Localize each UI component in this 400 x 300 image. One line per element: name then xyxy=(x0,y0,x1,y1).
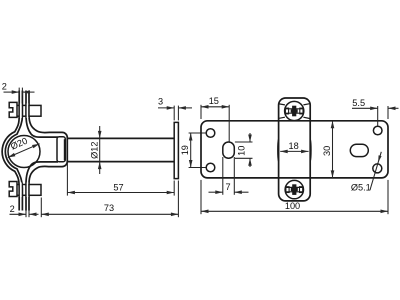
svg-text:5.5: 5.5 xyxy=(352,98,365,108)
hole top-right xyxy=(373,126,382,135)
band tab right edge xyxy=(309,140,312,162)
top strap gap masks xyxy=(20,104,22,119)
dim 2 top strap thickness xyxy=(18,88,20,96)
svg-text:15: 15 xyxy=(209,96,219,106)
clamp housing front view xyxy=(279,98,311,201)
clamp band right piece outer edge with eye loop xyxy=(29,91,67,211)
dim Ø20 clamp bore xyxy=(8,144,40,158)
svg-text:10: 10 xyxy=(236,146,246,156)
clamp band right piece inner edge bottom xyxy=(26,162,58,211)
svg-text:3: 3 xyxy=(158,97,163,107)
band tab left edge xyxy=(277,140,280,162)
dim 15 slot position xyxy=(200,105,202,119)
shaft Ø12 bottom edge xyxy=(67,161,175,163)
hole bottom-left xyxy=(206,163,215,172)
clamp screw top front view xyxy=(285,101,304,120)
dim 30 plate height xyxy=(332,121,334,178)
top nut xyxy=(29,105,41,116)
dim 5.5 hole offset xyxy=(377,106,379,127)
bottom nut xyxy=(29,185,41,196)
dim 2 bottom strap thickness xyxy=(25,211,27,218)
clamp band left piece outer edge xyxy=(2,91,19,211)
clamp band right piece inner edge top xyxy=(26,91,58,138)
label Ø5.1 leader xyxy=(370,152,381,190)
shaft end face in eye xyxy=(63,139,65,160)
svg-text:57: 57 xyxy=(113,183,123,193)
dim 100 plate width xyxy=(200,180,202,214)
dim 18 clamp width xyxy=(280,150,308,152)
screw top yoke edges xyxy=(279,104,285,105)
hole top-left xyxy=(206,129,215,138)
svg-text:2: 2 xyxy=(2,82,7,92)
eye inner opening xyxy=(57,137,65,162)
bottom screw head xyxy=(9,182,17,197)
svg-text:2: 2 xyxy=(10,204,15,214)
hole bottom-right Ø5.1 xyxy=(373,164,382,173)
dim 19 hole spacing xyxy=(189,132,207,134)
top screw head xyxy=(9,102,17,117)
dim 73 overall length xyxy=(40,198,42,218)
svg-text:100: 100 xyxy=(285,201,300,211)
dim 10 slot height xyxy=(235,141,253,143)
flange plate side view xyxy=(174,122,178,178)
top screw shank xyxy=(17,104,29,106)
conductor circle Ø20 xyxy=(8,136,40,168)
clamp screw bottom front view xyxy=(285,180,303,198)
dim 7 slot width xyxy=(222,157,224,195)
svg-text:19: 19 xyxy=(180,145,190,155)
clamp band left piece inner edge xyxy=(5,91,22,211)
slot left vertical xyxy=(223,142,235,158)
bottom strap gap masks xyxy=(20,183,22,198)
slot right horizontal xyxy=(350,144,368,156)
mounting plate front view xyxy=(201,121,388,178)
shaft Ø12 top edge xyxy=(67,137,175,139)
dim 3 flange thickness xyxy=(173,106,175,121)
svg-text:30: 30 xyxy=(322,146,332,156)
svg-text:18: 18 xyxy=(288,141,298,151)
svg-text:Ø12: Ø12 xyxy=(89,142,99,159)
svg-text:7: 7 xyxy=(225,182,230,192)
svg-text:Ø5.1: Ø5.1 xyxy=(351,183,371,193)
bottom screw shank xyxy=(17,184,29,186)
dim 57 shaft length xyxy=(66,163,68,196)
svg-text:73: 73 xyxy=(104,203,114,213)
dim Ø12 shaft diameter xyxy=(99,126,101,174)
